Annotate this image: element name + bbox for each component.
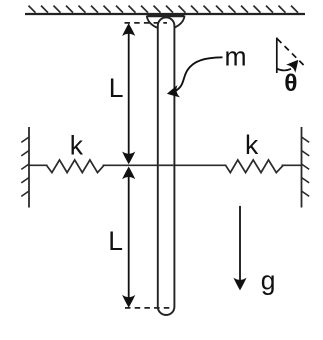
top dashed reference line at pivot level [125, 22, 168, 24]
upper arrowhead up [122, 23, 135, 36]
midline through springs and rod [29, 164, 302, 166]
svg-text:m: m [225, 41, 247, 71]
leader arrow from m to rod [176, 57, 223, 90]
upper arrowhead down [122, 152, 135, 165]
midline segment redrawn across rod [159, 164, 174, 166]
right wall hatching [302, 137, 310, 196]
left wall hatching [21, 137, 29, 196]
gravity arrow g (shaft) [239, 206, 241, 286]
svg-text:k: k [245, 130, 259, 160]
dimension arrow L lower (shaft) [128, 170, 130, 304]
rod m (rounded rectangle) [158, 17, 175, 315]
angle inset vertical line [276, 38, 278, 74]
svg-text:L: L [108, 226, 123, 256]
spring k left (zigzag) [48, 164, 103, 167]
bottom dashed reference line at rod end level [125, 307, 170, 309]
svg-text:g: g [261, 266, 276, 296]
svg-text:k: k [70, 130, 84, 160]
pivot bar [148, 14, 185, 17]
svg-text:θ: θ [284, 70, 297, 97]
g arrowhead [233, 278, 246, 291]
leader arrowhead [166, 85, 181, 100]
pivot semicircle [147, 16, 185, 30]
spring k right (zigzag) [227, 164, 282, 167]
dimension arrow L upper (shaft) [128, 27, 130, 161]
angle arc arrow [277, 69, 291, 71]
angle inset dashed line [277, 39, 304, 66]
lower arrowhead up [122, 167, 135, 180]
lower arrowhead down [122, 295, 135, 308]
svg-text:L: L [109, 73, 124, 103]
ceiling hatching [29, 6, 299, 13]
arc arrowhead [286, 56, 303, 73]
ceiling line [25, 13, 305, 15]
right wall [301, 127, 303, 208]
left wall [28, 127, 30, 208]
